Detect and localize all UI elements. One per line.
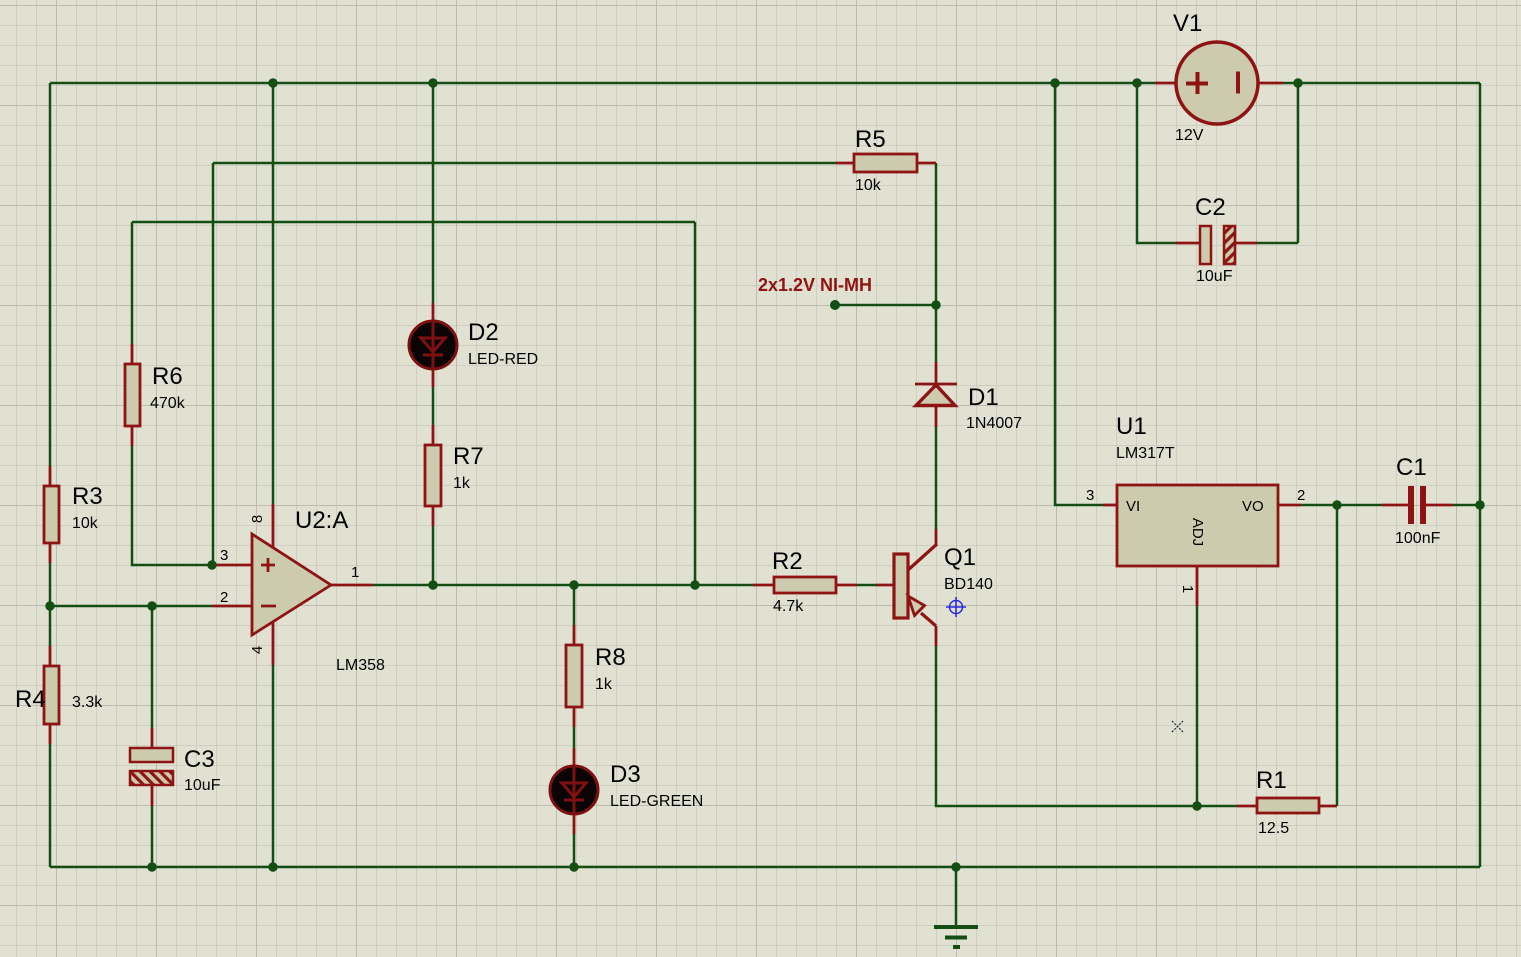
svg-text:1k: 1k — [453, 475, 471, 492]
svg-text:3.3k: 3.3k — [72, 694, 103, 711]
svg-text:R6: R6 — [152, 363, 183, 390]
wire feedback top horizontal — [132, 221, 695, 224]
wire ground stem — [955, 867, 958, 927]
node output R7 — [428, 580, 437, 589]
svg-text:12V: 12V — [1175, 127, 1204, 144]
svg-text:R1: R1 — [1256, 767, 1287, 794]
battery V1 — [1173, 10, 1258, 144]
svg-text:1: 1 — [1179, 585, 1196, 593]
capacitor C1 — [1395, 454, 1441, 547]
wire C1 leads — [1382, 504, 1453, 507]
wire R1 leads — [1237, 805, 1337, 808]
wire R2 leads — [753, 584, 857, 587]
svg-text:1: 1 — [351, 564, 359, 581]
node battery D1 — [931, 300, 940, 309]
node top rail D2 — [428, 78, 437, 87]
capacitor C2 — [1195, 194, 1235, 285]
svg-text:R3: R3 — [72, 483, 103, 510]
wire U1 pin3 lead — [1103, 504, 1117, 507]
node left rail pin2 — [45, 601, 54, 610]
svg-text:D3: D3 — [610, 761, 641, 788]
wire top rail — [50, 82, 1480, 85]
resistor R6 — [125, 363, 186, 426]
svg-text:R4: R4 — [15, 686, 46, 713]
svg-text:LED-GREEN: LED-GREEN — [610, 793, 703, 810]
svg-text:R8: R8 — [595, 644, 626, 671]
marker cross — [1172, 721, 1183, 732]
wire R6 string — [132, 222, 212, 565]
node C1 right rail — [1475, 500, 1484, 509]
wire D2 R7 string — [432, 83, 435, 585]
wire V1 input vertical — [1055, 83, 1103, 505]
wire op-amp pin3 lead — [212, 564, 252, 567]
svg-text:3: 3 — [1086, 487, 1094, 504]
LED D3 — [550, 761, 703, 814]
node battery terminal — [830, 300, 840, 310]
wire D3 leads — [573, 748, 576, 834]
wire pin2 line — [50, 605, 212, 608]
wire C3 leads — [151, 728, 154, 806]
wire R6 leads — [131, 344, 134, 446]
svg-text:R7: R7 — [453, 443, 484, 470]
svg-text:ADJ: ADJ — [1189, 518, 1206, 546]
wire U1 ADJ lead — [1196, 566, 1199, 606]
wire bottom rail — [50, 866, 1480, 869]
wire R7 leads — [432, 425, 435, 526]
wire feedback vertical — [694, 222, 697, 585]
svg-text:R2: R2 — [772, 548, 803, 575]
node top rail pin8 — [268, 78, 277, 87]
ground — [934, 927, 978, 947]
wire C2 leads — [1176, 242, 1257, 245]
svg-text:R5: R5 — [855, 126, 886, 153]
regulator U1 — [1086, 413, 1305, 593]
wire op-amp pin1 lead — [331, 584, 373, 587]
resistor R4 — [15, 666, 103, 724]
node bottom rail C3 — [147, 862, 156, 871]
resistor R1 — [1256, 767, 1319, 837]
svg-text:1N4007: 1N4007 — [966, 415, 1022, 432]
svg-text:3: 3 — [220, 547, 228, 564]
wire R5 leads — [836, 162, 936, 165]
LED D2 — [409, 319, 538, 369]
wire ADJ vertical — [1196, 606, 1199, 806]
svg-text:4.7k: 4.7k — [773, 598, 804, 615]
svg-text:VI: VI — [1126, 498, 1140, 515]
wire op-amp power pin8/pin4 vertical — [272, 83, 275, 867]
node pin3 junction — [207, 560, 216, 569]
diode D1 — [915, 384, 1022, 432]
transistor Q1 — [894, 544, 993, 626]
svg-text:Q1: Q1 — [944, 544, 976, 571]
node output R8 — [569, 580, 578, 589]
wire C2 loop — [1137, 83, 1298, 243]
wire U1 VO lead — [1278, 504, 1301, 507]
node bottom rail D3 — [569, 862, 578, 871]
wire R4 leads — [49, 646, 52, 744]
resistor R8 — [566, 644, 626, 707]
svg-text:LM317T: LM317T — [1116, 445, 1175, 462]
wire C3 string — [151, 606, 154, 867]
wire V1 leads — [1155, 82, 1283, 85]
svg-text:2: 2 — [220, 589, 228, 606]
wire R3 leads — [49, 466, 52, 563]
svg-text:D2: D2 — [468, 319, 499, 346]
wire Q1 collector emitter leads — [935, 529, 938, 646]
svg-text:LM358: LM358 — [336, 657, 385, 674]
node bottom rail ground — [951, 862, 960, 871]
wire R5 line — [213, 163, 836, 565]
wire op-amp pin8 pin4 leads — [272, 504, 275, 665]
svg-text:10uF: 10uF — [1196, 268, 1233, 285]
wire Q1 base lead — [877, 584, 894, 587]
svg-text:4: 4 — [249, 646, 266, 654]
svg-text:LED-RED: LED-RED — [468, 351, 538, 368]
node ADJ R1 — [1192, 801, 1201, 810]
wire battery stub — [835, 304, 936, 307]
svg-text:2: 2 — [1297, 487, 1305, 504]
svg-text:C3: C3 — [184, 746, 215, 773]
op-amp U2:A — [220, 507, 385, 674]
svg-text:C1: C1 — [1396, 454, 1427, 481]
wire left rail — [49, 83, 52, 867]
node top rail C2 right — [1293, 78, 1302, 87]
wire R8 leads — [573, 625, 576, 727]
svg-text:12.5: 12.5 — [1258, 820, 1289, 837]
wire right rail — [1479, 83, 1482, 867]
svg-text:2x1.2V NI-MH: 2x1.2V NI-MH — [758, 275, 872, 295]
svg-text:1k: 1k — [595, 676, 613, 693]
node top rail U1 input — [1050, 78, 1059, 87]
svg-text:10uF: 10uF — [184, 777, 221, 794]
node top rail C2 left — [1132, 78, 1141, 87]
svg-text:V1: V1 — [1173, 10, 1202, 37]
node output feedback — [690, 580, 699, 589]
wire op-amp output line — [373, 584, 877, 587]
wire R8 D3 string — [573, 585, 576, 867]
node bottom rail pin4 — [268, 862, 277, 871]
capacitor C3 — [130, 746, 221, 794]
resistor R5 — [854, 126, 917, 194]
svg-text:10k: 10k — [855, 177, 882, 194]
resistor R3 — [44, 483, 103, 543]
svg-text:100nF: 100nF — [1395, 530, 1441, 547]
svg-text:U2:A: U2:A — [295, 507, 348, 534]
wire D2 leads — [432, 303, 435, 387]
node VO R1 — [1332, 500, 1341, 509]
wire R5 to D1 Q1 string — [936, 163, 1337, 806]
wire VO to C1 — [1301, 504, 1480, 507]
svg-text:10k: 10k — [72, 515, 99, 532]
svg-text:8: 8 — [249, 515, 266, 523]
wire op-amp pin2 lead — [212, 605, 252, 608]
svg-text:U1: U1 — [1116, 413, 1147, 440]
resistor R7 — [425, 443, 484, 506]
svg-text:VO: VO — [1242, 498, 1264, 515]
svg-text:C2: C2 — [1195, 194, 1226, 221]
svg-text:BD140: BD140 — [944, 576, 993, 593]
svg-text:470k: 470k — [150, 395, 186, 412]
svg-text:D1: D1 — [968, 384, 999, 411]
wire D1 leads — [935, 362, 938, 427]
resistor R2 — [772, 548, 836, 615]
node pin2 C3 junction — [147, 601, 156, 610]
marker origin Q1 — [946, 597, 966, 617]
